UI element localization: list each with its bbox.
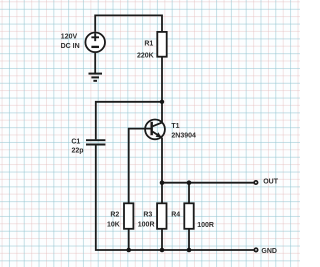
svg-text:100R: 100R bbox=[138, 221, 155, 228]
svg-text:22p: 22p bbox=[71, 147, 83, 154]
svg-text:100R: 100R bbox=[197, 222, 214, 229]
svg-text:10K: 10K bbox=[107, 221, 120, 228]
svg-text:R4: R4 bbox=[171, 212, 180, 219]
svg-text:T1: T1 bbox=[171, 123, 179, 130]
svg-text:GND: GND bbox=[261, 248, 277, 255]
svg-text:120V: 120V bbox=[61, 33, 78, 40]
svg-text:220K: 220K bbox=[137, 53, 154, 60]
svg-text:R2: R2 bbox=[110, 212, 119, 219]
svg-text:R1: R1 bbox=[144, 41, 153, 48]
svg-text:R3: R3 bbox=[143, 212, 152, 219]
svg-text:C1: C1 bbox=[71, 138, 80, 145]
svg-text:2N3904: 2N3904 bbox=[171, 132, 196, 139]
svg-text:DC IN: DC IN bbox=[61, 43, 80, 50]
svg-text:OUT: OUT bbox=[263, 179, 279, 186]
